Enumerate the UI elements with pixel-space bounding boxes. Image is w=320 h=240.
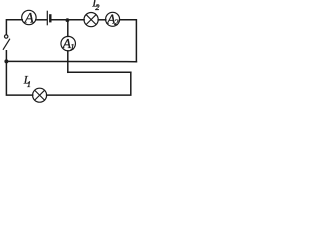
wire: ammeter A2 to top-right corner down to middle rail bbox=[120, 20, 137, 62]
svg-text:1: 1 bbox=[27, 79, 31, 89]
svg-text:2: 2 bbox=[95, 2, 100, 12]
ammeter A1 bbox=[61, 36, 76, 52]
node J1 junction dot bbox=[66, 18, 70, 22]
label L1 bbox=[23, 74, 31, 89]
wire left rail: switch to bottom-left corner bbox=[6, 51, 32, 95]
svg-text:A: A bbox=[24, 11, 35, 27]
wire: junction J1 down to ammeter A1 bbox=[67, 20, 69, 36]
label L2 bbox=[91, 0, 100, 12]
lamp L1 bbox=[33, 88, 47, 102]
wire top rail: left corner to ammeter A bbox=[6, 20, 22, 35]
wire: ammeter A to battery bbox=[36, 19, 46, 21]
wire middle rail bbox=[6, 60, 136, 62]
svg-text:2: 2 bbox=[114, 17, 119, 27]
svg-text:1: 1 bbox=[70, 42, 74, 52]
lamp L2 bbox=[84, 13, 98, 27]
wire: ammeter A1 down across middle rail to lower horizontal bbox=[67, 51, 69, 72]
node J2 junction dot on left rail bbox=[4, 59, 8, 63]
wire: battery to lamp L2 bbox=[52, 19, 85, 21]
ammeter A bbox=[22, 10, 36, 26]
switch S1 bbox=[3, 35, 9, 50]
wire bottom rail: lamp L1 to lower-right corner bbox=[47, 72, 131, 95]
wire: lower horizontal from A1 branch to lower-right vertical bbox=[68, 71, 131, 73]
ammeter A2 bbox=[106, 11, 120, 27]
battery B1 bbox=[47, 11, 50, 24]
wire: lamp L2 to ammeter A2 bbox=[98, 19, 106, 21]
